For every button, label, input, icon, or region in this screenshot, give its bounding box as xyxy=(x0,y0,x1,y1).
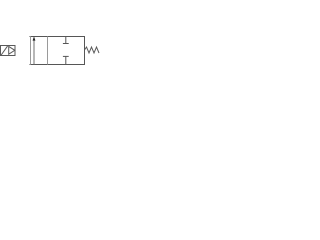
blocked port T (bottom) xyxy=(63,56,69,64)
solenoid actuator box xyxy=(0,45,16,56)
solenoid diagonal stroke xyxy=(1,46,7,55)
flow-path arrow xyxy=(33,36,36,64)
valve left edge xyxy=(30,36,32,65)
position divider xyxy=(47,37,49,65)
solenoid triangle xyxy=(9,46,15,54)
valve right edge xyxy=(84,36,86,65)
blocked port T (top) xyxy=(63,37,69,44)
valve body outline xyxy=(30,36,86,65)
return spring xyxy=(85,47,100,53)
